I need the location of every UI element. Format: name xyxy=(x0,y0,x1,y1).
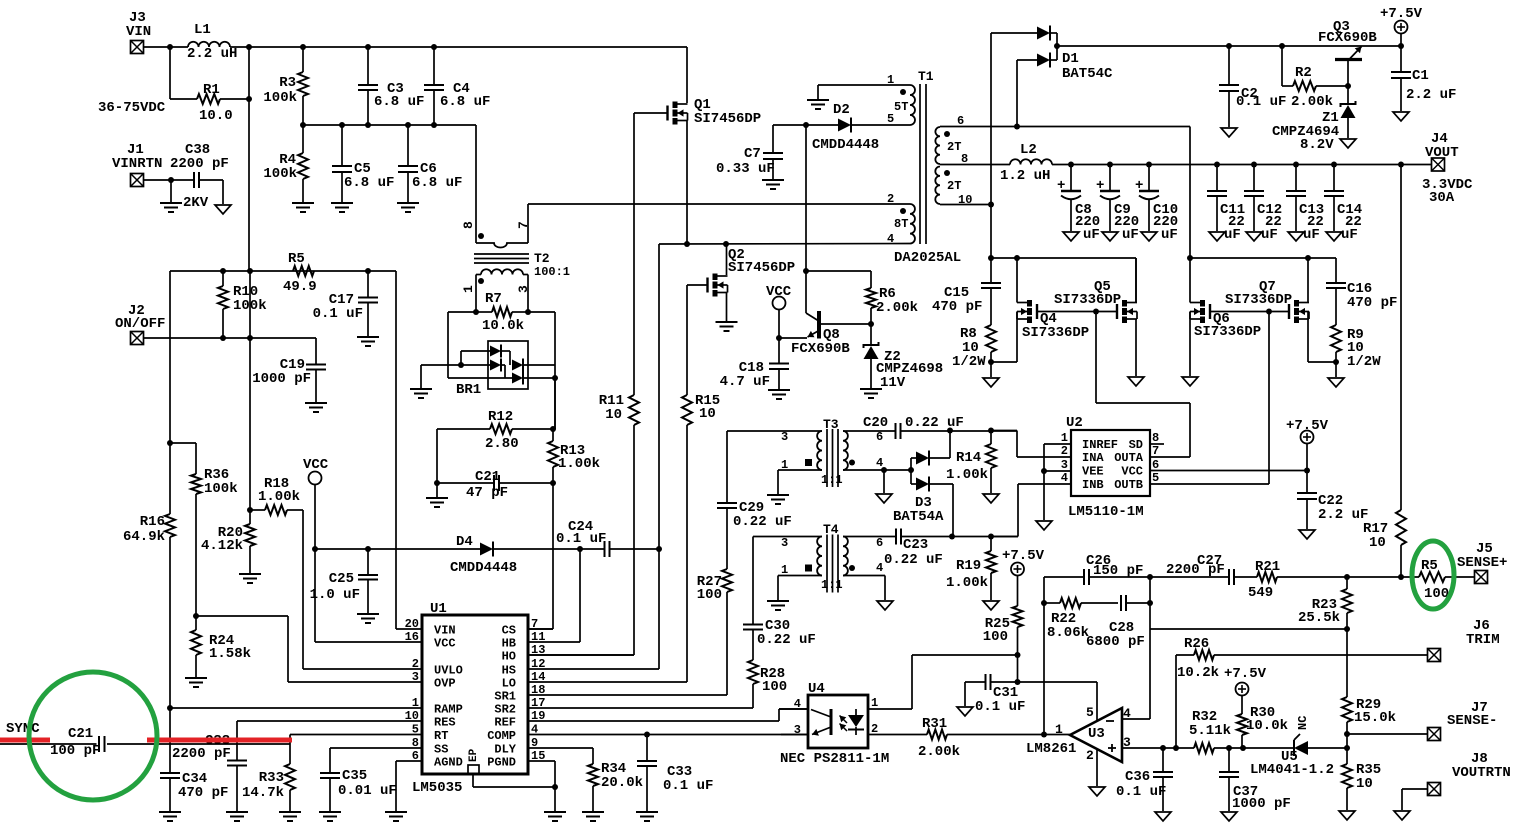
svg-text:6.8 uF: 6.8 uF xyxy=(344,175,394,191)
capacitor C24 0.1 uF xyxy=(556,519,610,557)
svg-text:SI7336DP: SI7336DP xyxy=(1225,292,1292,308)
ground C21 xyxy=(426,483,448,507)
resistor R26 10.2k xyxy=(1177,636,1219,681)
wire BR1 gnd wire xyxy=(421,364,490,366)
svg-text:R26: R26 xyxy=(1184,636,1209,652)
svg-text:C7: C7 xyxy=(744,146,761,162)
wire R24 leads xyxy=(195,616,197,677)
wire U4 pin1 net xyxy=(868,655,1018,709)
wire fb mid link xyxy=(1149,577,1151,629)
capacitor C38 2200 pF 2KV xyxy=(170,142,229,211)
wire D1 top wire xyxy=(991,33,1037,205)
wire J3 to L1 xyxy=(144,46,189,48)
wire SENSE- wire xyxy=(1347,734,1428,748)
power VCC flag Q8 xyxy=(766,284,792,338)
svg-text:10: 10 xyxy=(699,406,716,422)
capacitor C26 150 pF xyxy=(1084,553,1143,585)
resistor R27 100 xyxy=(697,569,732,603)
junction J2 wire xyxy=(220,335,253,341)
svg-text:10: 10 xyxy=(1369,535,1386,551)
wire J8 gnd wire xyxy=(1402,789,1428,810)
svg-text:2: 2 xyxy=(887,192,894,206)
bridge BR1 xyxy=(456,341,555,398)
ground C19 xyxy=(305,403,327,412)
svg-text:L1: L1 xyxy=(194,22,211,38)
strikeout red line left xyxy=(0,738,50,743)
svg-text:R31: R31 xyxy=(922,716,947,732)
svg-text:FCX690B: FCX690B xyxy=(1318,30,1377,46)
ic U2 LM5110-1M xyxy=(1061,415,1159,520)
svg-text:C20: C20 xyxy=(863,415,888,431)
wire R30 lower xyxy=(1241,735,1243,748)
power +7.5V top xyxy=(1380,6,1423,46)
wire R23 leads xyxy=(1346,577,1348,629)
svg-text:100:1: 100:1 xyxy=(534,265,570,279)
wire C24 to HS node xyxy=(610,548,660,550)
wire D2 input wire xyxy=(773,124,838,126)
svg-text:10.0: 10.0 xyxy=(199,108,233,124)
ground C25 xyxy=(357,614,379,623)
resistor R11 10 xyxy=(599,393,639,425)
wire SR2 lower xyxy=(528,684,753,708)
svg-text:2.80: 2.80 xyxy=(485,436,519,452)
transformer T1 DA2025AL xyxy=(887,69,972,266)
svg-text:470 pF: 470 pF xyxy=(1347,295,1397,311)
capacitor C9 220 uF xyxy=(1096,165,1139,244)
junction R23 bottom xyxy=(1344,626,1350,632)
wire mid rail xyxy=(303,124,476,126)
junction BR1 gnd node xyxy=(458,362,464,368)
svg-text:1.00k: 1.00k xyxy=(946,467,988,483)
resistor R2 2.00k xyxy=(1291,65,1333,110)
svg-text:4.12k: 4.12k xyxy=(201,538,243,554)
capacitor C36 0.1 uF xyxy=(1116,748,1173,800)
wire R32 out xyxy=(1214,747,1294,749)
svg-text:T4: T4 xyxy=(823,522,839,537)
resistor R5 49.9 xyxy=(283,251,317,295)
ic U1 LM5035 xyxy=(405,601,546,796)
wire U2 INREF/VEE xyxy=(1044,444,1071,520)
svg-text:VCC: VCC xyxy=(766,284,792,300)
zener Z2 CMPZ4698 11V xyxy=(864,324,944,391)
svg-text:8.06k: 8.06k xyxy=(1047,625,1089,641)
svg-text:30A: 30A xyxy=(1429,190,1455,206)
junction COMP node xyxy=(644,732,650,738)
svg-text:2: 2 xyxy=(1086,748,1094,763)
ground C13 xyxy=(1288,232,1304,241)
capacitor C34 470 pF xyxy=(160,708,228,801)
svg-text:uF: uF xyxy=(1122,227,1139,243)
diode D4 CMDD4448 xyxy=(450,534,517,576)
ground BR1 xyxy=(410,365,432,398)
capacitor C3 6.8 uF xyxy=(358,81,424,110)
connector J3 VIN xyxy=(126,10,151,54)
svg-text:SI7456DP: SI7456DP xyxy=(728,260,795,276)
junction gate A node xyxy=(1093,309,1099,315)
ground T1 pin1 xyxy=(807,100,829,109)
wire OUTB net xyxy=(1151,312,1269,485)
connector J4 VOUT xyxy=(1422,131,1473,206)
wire R23 wire xyxy=(1150,628,1347,630)
wire SR1 lower xyxy=(528,592,727,695)
wire pin AGND net xyxy=(396,761,422,811)
wire Q2 source xyxy=(726,293,728,322)
connector J1 VINRTN xyxy=(112,142,162,187)
svg-text:COMP: COMP xyxy=(487,729,516,743)
wire fb top xyxy=(1044,576,1229,578)
svg-text:5.11k: 5.11k xyxy=(1189,723,1231,739)
ground C11 xyxy=(1209,232,1225,241)
svg-text:BAT54A: BAT54A xyxy=(893,509,944,525)
wire R6 lower xyxy=(870,308,872,324)
svg-text:LM8261: LM8261 xyxy=(1026,741,1076,757)
svg-text:1.0 uF: 1.0 uF xyxy=(310,587,360,603)
capacitor C21 100 pF mod xyxy=(50,726,105,759)
optocoupler U4 NEC PS2811-1M xyxy=(780,681,889,767)
capacitor C35 0.01 uF xyxy=(320,768,397,799)
wire pin REF net xyxy=(528,709,808,721)
svg-text:+7.5V: +7.5V xyxy=(1286,418,1329,434)
wire fb vertical xyxy=(1043,577,1045,735)
wire bias rail xyxy=(1057,45,1401,47)
wire SR1 upper xyxy=(726,431,728,569)
svg-text:5: 5 xyxy=(1152,471,1159,485)
wire C3 leads xyxy=(367,47,369,125)
svg-text:100k: 100k xyxy=(263,166,297,182)
ground R14 xyxy=(983,494,999,503)
capacitor C5 6.8 uF xyxy=(332,161,394,191)
wire R1 branch xyxy=(170,47,249,271)
resistor R22 8.06k xyxy=(1047,598,1089,641)
svg-text:3: 3 xyxy=(781,430,788,444)
wire R34 gnd lead xyxy=(592,786,594,811)
svg-text:OUTB: OUTB xyxy=(1114,478,1143,492)
resistor R5 sense 100 xyxy=(1419,558,1449,602)
wire minus input net xyxy=(1122,629,1150,719)
svg-text:SENSE-: SENSE- xyxy=(1447,713,1497,729)
wire R13 leads xyxy=(552,429,554,483)
transistor Q7 SI7336DP xyxy=(1225,279,1309,323)
junction R8 gnd node xyxy=(988,359,994,365)
junction J1 node xyxy=(168,177,174,183)
wire R8 leads xyxy=(990,288,992,377)
svg-text:INREF: INREF xyxy=(1082,438,1118,452)
svg-text:2200 pF: 2200 pF xyxy=(172,746,231,762)
svg-text:R12: R12 xyxy=(488,409,513,425)
svg-text:470 pF: 470 pF xyxy=(932,299,982,315)
svg-text:R7: R7 xyxy=(485,291,502,307)
junction C20 node xyxy=(947,428,994,434)
svg-text:SR1: SR1 xyxy=(494,690,516,704)
svg-text:R2: R2 xyxy=(1295,65,1312,81)
wire R9 leads xyxy=(1335,288,1337,377)
diode D2 CMDD4448 xyxy=(812,102,879,153)
svg-text:64.9k: 64.9k xyxy=(123,529,165,545)
ground C31 xyxy=(957,707,973,716)
transformer T3 1:1 xyxy=(781,417,883,487)
ground AGND xyxy=(385,812,407,821)
wire D2 to T1 pin5 xyxy=(851,124,910,126)
svg-text:0.1 uF: 0.1 uF xyxy=(556,531,606,547)
resistor R1 10.0 xyxy=(197,82,233,124)
wire R3 leads xyxy=(302,47,304,125)
ground T3 pin4 xyxy=(876,470,892,503)
strikeout red line right xyxy=(147,738,292,743)
ground C5 xyxy=(331,203,353,212)
wire R20 leads xyxy=(249,510,251,573)
wire Q7 source xyxy=(1308,312,1336,363)
resistor R34 20.0k xyxy=(588,761,643,791)
transistor Q3 FCX690B xyxy=(1318,19,1377,86)
svg-text:10.2k: 10.2k xyxy=(1177,665,1219,681)
svg-text:C21: C21 xyxy=(68,726,93,742)
wire LO R15 upper xyxy=(686,285,688,395)
resistor R18 1.00k xyxy=(258,476,300,515)
svg-text:+7.5V: +7.5V xyxy=(1380,6,1423,22)
wire C6 leads xyxy=(407,125,409,202)
svg-text:6.8 uF: 6.8 uF xyxy=(374,94,424,110)
svg-text:LM4041-1.2: LM4041-1.2 xyxy=(1250,762,1334,778)
ground J1 xyxy=(160,180,182,212)
svg-text:14.7k: 14.7k xyxy=(242,785,284,801)
svg-text:SYNC: SYNC xyxy=(6,721,40,737)
wire R31 out xyxy=(947,734,1070,736)
ground C2 xyxy=(1221,128,1237,137)
svg-text:8.2V: 8.2V xyxy=(1300,137,1334,153)
svg-text:2.00k: 2.00k xyxy=(1291,94,1333,110)
wire Q5 source xyxy=(1135,319,1137,376)
wire T3 pin4 wire xyxy=(843,469,911,471)
junction v+ nodes xyxy=(1015,652,1021,685)
svg-text:0.01 uF: 0.01 uF xyxy=(338,783,397,799)
wire R18 wires xyxy=(250,509,303,511)
junction R24 node xyxy=(193,613,199,619)
svg-text:7: 7 xyxy=(1152,444,1159,458)
wire T3 pin1 gnd xyxy=(778,470,822,494)
resistor R19 1.00k xyxy=(946,551,996,591)
resistor R28 100 xyxy=(748,660,787,695)
wire pin RES net xyxy=(237,721,422,761)
wire U4 pin3 wire stub xyxy=(781,734,808,736)
capacitor C10 220 uF xyxy=(1135,165,1178,244)
svg-text:3: 3 xyxy=(781,536,788,550)
svg-text:100k: 100k xyxy=(204,481,238,497)
svg-text:5T: 5T xyxy=(894,100,908,114)
svg-text:RT: RT xyxy=(434,729,448,743)
svg-text:10: 10 xyxy=(1356,776,1373,792)
wire C21 wires xyxy=(437,482,553,484)
junction VCC node xyxy=(312,546,318,552)
ground C37 xyxy=(1221,812,1237,821)
resistor R16 64.9k xyxy=(123,514,175,545)
svg-text:36-75VDC: 36-75VDC xyxy=(98,100,166,116)
junction Q3 base node xyxy=(1345,83,1351,89)
ground C22 xyxy=(1299,530,1315,539)
wire Vplus link xyxy=(1017,655,1019,682)
wire Q1 source to switch rail xyxy=(686,121,688,245)
svg-text:100: 100 xyxy=(762,679,787,695)
transistor Q4 SI7336DP xyxy=(1017,300,1089,341)
capacitor C37 1000 pF xyxy=(1219,748,1291,812)
resistor R3 100k xyxy=(263,72,308,106)
svg-text:2.00k: 2.00k xyxy=(876,300,918,316)
ground Z2 xyxy=(860,389,882,398)
wire T2 pin1 lead xyxy=(475,275,477,313)
wire pin HO stub xyxy=(528,654,634,656)
svg-text:2200 pF: 2200 pF xyxy=(170,156,229,172)
svg-text:UVLO: UVLO xyxy=(434,664,463,678)
junction R13 bottom xyxy=(550,480,556,486)
junction SR rail B xyxy=(1187,255,1311,261)
svg-text:6.8 uF: 6.8 uF xyxy=(440,94,490,110)
svg-text:R5: R5 xyxy=(288,251,305,267)
svg-text:1.58k: 1.58k xyxy=(209,646,251,662)
transistor Q8 FCX690B xyxy=(779,271,871,357)
connector J7 SENSE- xyxy=(1428,700,1498,741)
inductor L1 2.2 uH xyxy=(187,22,237,62)
power +7.5V U2 xyxy=(1286,418,1329,471)
ground R19 xyxy=(983,601,999,610)
ground R35 xyxy=(1339,811,1355,820)
ground C36 xyxy=(1155,812,1171,821)
svg-text:U1: U1 xyxy=(430,601,447,617)
svg-text:R21: R21 xyxy=(1255,559,1280,575)
svg-text:+7.5V: +7.5V xyxy=(1002,548,1045,564)
wire Q7 drain xyxy=(1307,258,1309,303)
resistor R6 2.00k xyxy=(866,286,918,316)
junction C25 node xyxy=(365,546,371,552)
svg-text:U4: U4 xyxy=(808,681,825,697)
svg-text:HO: HO xyxy=(502,650,516,664)
wire plus input wire xyxy=(1122,747,1194,749)
wire U2 VCC net xyxy=(1150,470,1307,472)
svg-text:LM5035: LM5035 xyxy=(412,780,462,796)
wire T3 pin6 to C20 xyxy=(843,430,896,432)
svg-text:4.7 uF: 4.7 uF xyxy=(720,374,770,390)
svg-text:VIN: VIN xyxy=(434,624,456,638)
junction sense node xyxy=(1344,574,1404,580)
svg-text:100: 100 xyxy=(697,587,722,603)
svg-text:1.00k: 1.00k xyxy=(558,456,600,472)
ground R34 xyxy=(582,812,604,821)
wire R26 wires xyxy=(1176,655,1428,748)
svg-text:2T: 2T xyxy=(947,140,961,154)
wire R21 wires xyxy=(1234,576,1401,578)
junction T3 pin4 xyxy=(881,467,914,473)
capacitor C14 22 uF xyxy=(1324,165,1362,244)
transistor Q2 SI7456DP xyxy=(708,247,796,297)
svg-text:0.1 uF: 0.1 uF xyxy=(663,778,713,794)
resistor R24 1.58k xyxy=(191,630,251,662)
wire C17 gnd lead xyxy=(367,303,369,337)
ground R20 xyxy=(239,574,261,583)
svg-text:1: 1 xyxy=(871,696,878,710)
capacitor C23 0.22 uF xyxy=(884,529,943,569)
svg-text:1000 pF: 1000 pF xyxy=(1232,796,1291,812)
svg-text:1.2 uH: 1.2 uH xyxy=(1000,168,1050,184)
svg-text:100: 100 xyxy=(983,629,1008,645)
svg-text:1.00k: 1.00k xyxy=(258,489,300,505)
ground Q5 xyxy=(1128,377,1144,386)
wire Q4 source xyxy=(991,312,1017,363)
wire R16 lower xyxy=(169,537,171,708)
junction input node xyxy=(167,44,173,50)
svg-text:100k: 100k xyxy=(263,90,297,106)
junction switch rail xyxy=(684,241,729,247)
svg-text:T3: T3 xyxy=(823,417,839,432)
wire pin HB net xyxy=(528,549,580,642)
transformer T2 100:1 xyxy=(461,221,570,293)
wire pin RAMP net xyxy=(170,707,422,709)
wire Q2 gate wire xyxy=(687,284,707,286)
svg-text:5: 5 xyxy=(1086,705,1094,720)
wire U4 pin2 wire xyxy=(868,734,927,736)
svg-text:1/2W: 1/2W xyxy=(952,354,986,370)
wire pin VIN net xyxy=(396,271,422,629)
capacitor C2 0.1 uF xyxy=(1219,46,1286,127)
junction top rail xyxy=(246,44,437,50)
wire T2 pin3 to BR1 xyxy=(528,312,555,429)
capacitor C4 6.8 uF xyxy=(424,81,490,110)
resistor R29 15.0k xyxy=(1342,697,1396,726)
ground T4 pin1 xyxy=(767,601,789,610)
wire OUTA net xyxy=(1096,312,1190,458)
svg-text:+: + xyxy=(1135,178,1143,194)
wire T2 pin3 lead xyxy=(527,275,529,313)
svg-text:BR1: BR1 xyxy=(456,382,481,398)
resistor R8 10 1/2W xyxy=(952,325,996,370)
svg-text:VIN: VIN xyxy=(126,24,151,40)
svg-text:10: 10 xyxy=(605,407,622,423)
wire Q6Q7 gate xyxy=(1211,311,1288,313)
svg-text:R14: R14 xyxy=(956,450,981,466)
wire U2 INA net xyxy=(991,431,1071,458)
wire T3 pin3 wire xyxy=(727,430,822,432)
wire pin SS net xyxy=(330,748,422,773)
svg-text:2T: 2T xyxy=(947,179,961,193)
ground C18 xyxy=(768,390,790,399)
svg-text:OVP: OVP xyxy=(434,677,456,691)
wire top rail to Q1 drain xyxy=(686,47,688,103)
ground T4 pin4 xyxy=(877,601,893,610)
wire R36 lower xyxy=(195,494,197,616)
power +7.5V R30 xyxy=(1224,666,1267,714)
wire T4 pin6 to C23 xyxy=(843,536,896,538)
wire Q6 source xyxy=(1189,312,1191,377)
wire C36 gnd lead xyxy=(1162,777,1164,811)
svg-text:549: 549 xyxy=(1248,585,1273,601)
svg-text:8: 8 xyxy=(461,221,476,229)
resistor R36 100k xyxy=(191,467,238,497)
resistor R30 10.0k xyxy=(1237,705,1288,735)
wire R35 leads xyxy=(1346,748,1348,810)
ground C1 xyxy=(1393,112,1409,121)
ground C12 xyxy=(1246,232,1262,241)
wire T1 pin1 to gnd xyxy=(818,85,910,99)
zener Z1 CMPZ4694 8.2V xyxy=(1272,86,1356,153)
svg-text:CMDD4448: CMDD4448 xyxy=(450,560,517,576)
transistor Q1 SI7456DP xyxy=(668,97,762,127)
wire R6 feed xyxy=(806,271,871,288)
wire R10 leads xyxy=(222,271,224,338)
wire feed rail R5 xyxy=(170,270,396,272)
wire R4 leads xyxy=(302,125,304,202)
svg-text:R33: R33 xyxy=(259,770,284,786)
wire R14 leads xyxy=(990,431,992,494)
junction RAMP node xyxy=(167,705,173,711)
connector J6 TRIM xyxy=(1428,618,1500,662)
inductor L2 1.2 uH xyxy=(1000,142,1052,184)
